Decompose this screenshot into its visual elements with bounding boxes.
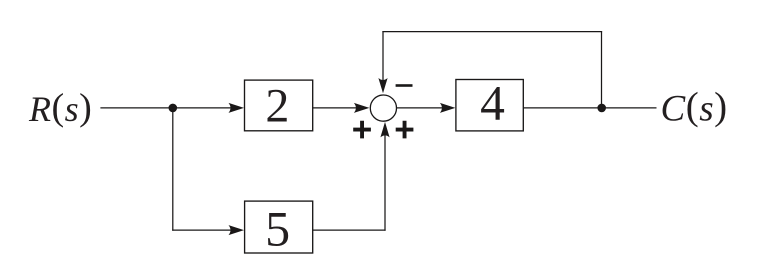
svg-text:C(s): C(s) <box>661 85 728 130</box>
sign + (lower-left of summing junction) <box>353 121 371 139</box>
wire: takeoff node to block 2 (with arrowhead) <box>173 103 244 113</box>
wire: block 2 to summing junction (with arrowhead) <box>313 103 370 113</box>
block "4" (plant) <box>456 80 523 131</box>
feedback wire: drop into summing junction (with arrowhead) <box>378 31 387 93</box>
wire: riser from block 5 up into summing junction (with arrowhead) <box>380 122 389 231</box>
svg-text:R(s): R(s) <box>28 87 92 130</box>
svg-text:2: 2 <box>265 79 289 132</box>
wire: input from R(s) to takeoff node <box>100 107 172 109</box>
wire: block 5 output horizontal run <box>313 229 386 231</box>
wire: lower horizontal to block 5 (with arrowhead) <box>172 225 244 235</box>
summing junction <box>370 95 396 121</box>
wire: summing junction to block 4 (with arrowhead) <box>397 103 456 113</box>
feedback wire: top horizontal run <box>382 31 602 33</box>
sign + (lower-right of summing junction) <box>396 121 414 139</box>
block "2" (forward gain) <box>245 80 313 131</box>
sign - (upper-right of summing junction) <box>396 84 413 87</box>
pickoff node (junction dot) <box>597 104 606 113</box>
svg-text:5: 5 <box>265 200 290 256</box>
block "5" (parallel gain) <box>245 201 313 253</box>
takeoff node (junction dot) <box>169 104 178 113</box>
svg-text:4: 4 <box>480 75 505 130</box>
wire: block 4 to output C(s) <box>523 107 656 109</box>
feedback wire: riser up from pickoff node <box>601 31 603 108</box>
wire: takeoff node down to lower path <box>172 108 174 231</box>
